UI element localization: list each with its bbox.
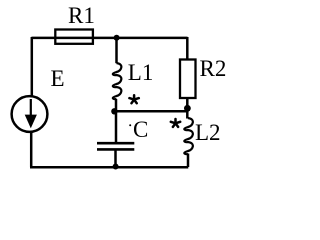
middle horizontal wire <box>115 110 188 113</box>
label E <box>51 67 65 90</box>
inductor L2 <box>184 118 193 154</box>
label C <box>133 118 148 141</box>
resistor R1 <box>55 30 93 44</box>
wire right vertical upper <box>186 37 189 60</box>
wire top horizontal <box>32 37 188 40</box>
small dot left of C <box>129 124 131 126</box>
wire R2 to node <box>186 98 189 119</box>
label R1 <box>68 4 95 27</box>
wire L1 branch upper <box>115 38 118 63</box>
junction dots <box>114 35 120 41</box>
inductor L1 <box>113 63 122 99</box>
wire cap to bottom <box>114 151 117 168</box>
wire left vertical upper <box>31 37 34 97</box>
wire left vertical lower <box>30 132 33 168</box>
wire bottom horizontal <box>30 166 188 169</box>
wire L2 to bottom <box>187 154 190 168</box>
asterisk near L2 <box>171 119 180 127</box>
source E <box>12 96 48 132</box>
label R2 <box>200 57 227 80</box>
capacitor C plates <box>97 142 134 145</box>
asterisk near L1 <box>129 95 138 103</box>
label L2 <box>195 121 221 144</box>
label L1 <box>128 61 154 84</box>
resistor R2 <box>180 60 196 99</box>
wire L1 to cap <box>115 99 118 142</box>
